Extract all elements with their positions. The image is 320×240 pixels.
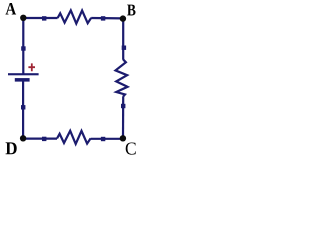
wire bottom-left (R3 to D)	[23, 138, 57, 140]
resistor R3 (bottom)	[57, 131, 91, 144]
wire bottom-right (C to R3)	[91, 138, 123, 140]
wire top-right (R1 to B)	[91, 17, 123, 20]
node A label	[6, 3, 17, 15]
junction dot B	[120, 15, 126, 21]
node D label	[6, 142, 17, 154]
terminal square left-bottom	[21, 105, 25, 109]
wire left-top (A to battery +)	[22, 18, 24, 74]
battery V1 negative plate	[15, 78, 30, 82]
node C label	[126, 142, 136, 154]
terminal square right-bottom	[121, 104, 125, 108]
junction dot C	[120, 135, 126, 141]
wire left-bottom (battery - to D)	[22, 80, 24, 139]
junction dot A	[20, 15, 26, 21]
terminal square bottom-left	[42, 137, 46, 141]
battery V1 positive plate	[8, 73, 39, 75]
terminal square right-top	[122, 46, 126, 50]
resistor R1 (top)	[58, 10, 92, 23]
wire right-top (B to R2)	[122, 18, 124, 59]
wire top-left (A to R1)	[23, 17, 57, 19]
battery V1 plus label	[28, 63, 35, 71]
terminal square bottom-right	[101, 137, 105, 141]
node B label	[127, 5, 135, 16]
wire right-bottom (R2 to C)	[122, 96, 124, 138]
terminal square top-right	[101, 16, 105, 20]
terminal square top-left	[42, 16, 46, 20]
junction dot D	[20, 135, 26, 141]
terminal square left-top	[21, 46, 25, 50]
resistor R2 (right)	[116, 60, 128, 97]
